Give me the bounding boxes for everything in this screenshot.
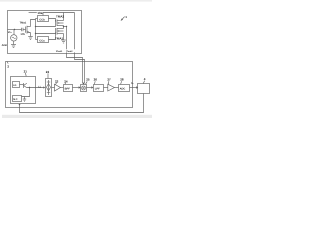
wire Vout2 below box [75, 52, 85, 82]
scan artifact top band [0, 0, 152, 2]
capacitor 17b [21, 28, 23, 31]
label 24 leader [65, 83, 66, 85]
gas cell box 22 [46, 79, 52, 97]
wire TMA1 source to ground [63, 34, 65, 41]
arrowhead into gas cell [43, 86, 45, 88]
wire Vout2 vertical [74, 13, 76, 50]
transistor TMA2 [55, 20, 57, 27]
label 27 leader [107, 81, 109, 84]
inner block LD drive [13, 82, 20, 88]
reference numeral 1 leader arrow [121, 17, 124, 21]
svg-text:CCb: CCb [39, 19, 45, 22]
wire laser output [27, 87, 44, 89]
transistor TMa1 (left) [25, 27, 27, 33]
label 23 leader [56, 83, 57, 85]
inner block modulator [13, 96, 22, 102]
box 10a (oscillation circuit outline) [8, 11, 82, 54]
wire rail to TMA1 gate mid [36, 33, 56, 35]
wire LD to laser [20, 84, 24, 86]
signal source Vin circle [11, 35, 17, 41]
svg-text:26: 26 [94, 77, 98, 81]
svg-text:Vout2: Vout2 [66, 50, 73, 53]
wire: TMa1 drain up to node rail [31, 20, 36, 27]
node dot feedback [19, 104, 21, 106]
svg-text:CCa: CCa [39, 40, 45, 43]
svg-text:TMA2: TMA2 [56, 15, 64, 19]
svg-text:TMA1: TMA1 [55, 37, 63, 41]
svg-text:Vout1: Vout1 [56, 50, 63, 53]
node dot laser out [29, 87, 30, 88]
svg-text:M.C: M.C [13, 98, 18, 101]
wire mixer to LPF with arrow [87, 87, 92, 89]
scan artifact bottom band [2, 115, 152, 118]
TMA1 body stub [57, 30, 64, 32]
wire CCa to TMA1 gate [49, 33, 56, 40]
label 28 leader [121, 81, 122, 84]
wire output node to Vout1 wire [64, 26, 67, 28]
svg-text:AGF: AGF [2, 44, 8, 47]
svg-text:21: 21 [24, 70, 28, 74]
node rail A [35, 19, 37, 40]
block CCa [38, 37, 49, 43]
svg-text:23: 23 [55, 79, 59, 83]
svg-text:10a: 10a [37, 11, 42, 15]
wire CCb to TMA2 gate [49, 19, 56, 22]
TMa1 arrow [27, 31, 30, 33]
wire: cap to TMa1 gate [23, 29, 26, 31]
wire Vout1 vertical [66, 27, 68, 50]
ground under TMa1 [28, 36, 33, 38]
amplifier 27 triangle [108, 84, 115, 91]
wire: TMa1 source to ground [30, 33, 32, 37]
amplifier 23 triangle [55, 84, 61, 91]
mixer box 25 [81, 85, 87, 92]
node dot A1 [35, 26, 36, 27]
wire TMA2 drain up to rail [63, 13, 65, 21]
svg-text:24: 24 [64, 79, 68, 83]
svg-text:LPF: LPF [95, 87, 100, 90]
label 21 leader [24, 73, 27, 76]
arrowhead LO into mixer [82, 83, 85, 85]
gas cell crystal symbol [48, 80, 50, 95]
wire rail to CCb [36, 18, 38, 20]
node dot Vout1 tap [66, 26, 67, 27]
svg-text:22: 22 [46, 70, 50, 74]
svg-text:Vin: Vin [8, 31, 12, 34]
svg-text:LD: LD [13, 84, 16, 87]
wire node down to lower block [22, 88, 30, 97]
ADC box 28 [119, 85, 130, 92]
node dot output [63, 26, 64, 27]
BPF box 24 [64, 85, 73, 92]
wire BPF to mixer with arrow [73, 87, 79, 89]
label 10a leader [29, 12, 37, 14]
label 2 leader [7, 62, 8, 64]
wire LPF to amp 27 [104, 87, 108, 89]
node between TMA2 and TMA1 [63, 26, 65, 29]
svg-text:ADC: ADC [120, 87, 126, 90]
svg-text:17b: 17b [20, 33, 25, 36]
svg-text:TMa1: TMa1 [20, 21, 27, 24]
text labels [2, 11, 146, 101]
node dot A2 [35, 33, 36, 34]
label 22 leader [47, 73, 49, 78]
ground under TMA1 [61, 39, 66, 41]
wire amp to BPF [60, 87, 63, 89]
svg-text:28: 28 [120, 77, 124, 81]
controller box 4 [138, 84, 150, 94]
transistor TMA1 [55, 28, 57, 34]
svg-text:27: 27 [107, 77, 111, 81]
svg-text:BPF: BPF [65, 87, 71, 90]
atomic oscillator outer box 2 [6, 62, 133, 108]
feedback wire from box 4 [20, 94, 144, 113]
wire CCb top stub to top rail [43, 13, 75, 16]
TMA2 body stub [57, 22, 64, 24]
wire Vout1 below box [67, 52, 83, 82]
label 26 leader [93, 81, 96, 84]
wire cell to amp 23 [52, 87, 55, 89]
wire amp27 to ADC [114, 87, 118, 89]
label 4 leader [143, 81, 144, 84]
ground near modulator [24, 97, 26, 100]
wire: gate input from left edge [8, 29, 22, 31]
light source unit box 21 [11, 77, 36, 104]
svg-text:25: 25 [86, 78, 90, 82]
output arrow to box 4 [130, 87, 137, 89]
label 25 leader [85, 81, 87, 84]
wire rail to CCa [36, 39, 38, 41]
wire: Vin source to node [13, 30, 15, 35]
wire rail to TMA2 gate mid [36, 26, 56, 28]
laser diode symbol [23, 83, 25, 88]
node dot Vin junction [14, 29, 15, 30]
block CCb [38, 16, 49, 22]
LPF box 26 [94, 85, 104, 92]
ground below Vin source [13, 41, 15, 44]
